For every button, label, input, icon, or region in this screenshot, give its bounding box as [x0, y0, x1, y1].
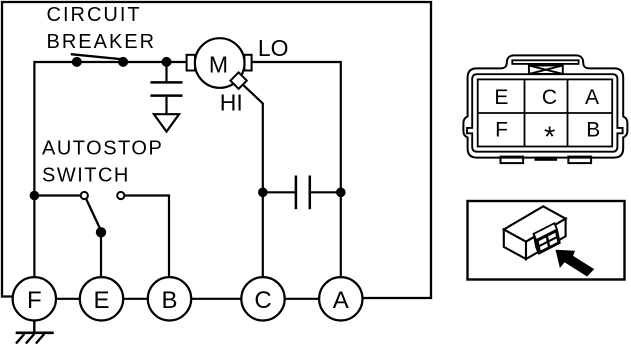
svg-text:A: A	[585, 86, 599, 109]
connector pin grid	[478, 79, 613, 146]
connector housing inner outline	[467, 74, 623, 152]
pin F	[495, 118, 508, 141]
terminal B	[148, 277, 191, 320]
capacitor C1 noise suppressor	[150, 62, 182, 114]
terminal C	[241, 277, 284, 320]
label LO	[258, 35, 289, 61]
svg-text:A: A	[333, 287, 349, 314]
relay module front face	[504, 230, 526, 260]
svg-text:AUTOSTOP: AUTOSTOP	[42, 138, 163, 160]
location box frame	[468, 201, 625, 280]
ground under capacitor C1	[154, 114, 179, 131]
pin E	[494, 86, 508, 109]
module socket cell bottom-right	[549, 237, 559, 246]
junction node switch branch	[30, 191, 40, 201]
terminal A	[319, 277, 362, 320]
connector bottom tab center filled	[535, 157, 558, 161]
wire bus C-A	[285, 298, 319, 300]
circuit breaker contact dot left	[72, 57, 82, 67]
svg-text:B: B	[586, 118, 600, 141]
pin C	[542, 86, 557, 109]
arrow pointer	[556, 250, 595, 277]
module socket left strip	[534, 234, 539, 254]
connector bottom tab right	[568, 157, 591, 164]
svg-text:*: *	[544, 122, 555, 154]
svg-text:F: F	[27, 287, 42, 314]
wire HI from motor down to C	[243, 85, 262, 277]
module socket top strip	[534, 223, 557, 240]
connector bottom tab left	[501, 157, 524, 164]
wire outer loop F to A	[2, 2, 431, 298]
module socket front face	[536, 230, 560, 254]
relay module top face	[504, 206, 566, 241]
terminal E	[80, 277, 123, 320]
label CIRCUIT BREAKER	[47, 4, 157, 53]
circuit breaker CB blade	[71, 54, 124, 59]
svg-text:C: C	[254, 287, 271, 314]
connector lock tab inner bar	[512, 60, 578, 64]
wire F up and top wire to motor	[34, 62, 186, 277]
pin B	[586, 118, 600, 141]
module socket cell top-left	[538, 236, 548, 245]
autostop switch SW1	[34, 192, 169, 277]
svg-text:CIRCUIT: CIRCUIT	[47, 4, 142, 26]
svg-text:E: E	[93, 287, 109, 314]
wire bus B-C	[191, 298, 241, 300]
label HI	[220, 89, 243, 115]
wire bus E-B	[123, 298, 148, 300]
wire LO from motor down to A	[252, 62, 341, 277]
module socket cell bottom-left	[539, 242, 549, 251]
connector housing outer outline with lock tab and side lugs	[463, 55, 627, 157]
connector lock bowtie	[529, 66, 563, 74]
circuit breaker contact dot right	[118, 57, 128, 67]
wire bus F-E	[56, 298, 80, 300]
svg-text:E: E	[494, 86, 508, 109]
junction node C2 left	[258, 188, 268, 198]
pin star	[544, 122, 555, 154]
svg-text:SWITCH: SWITCH	[42, 164, 130, 186]
ground under terminal F	[16, 321, 54, 344]
svg-text:HI: HI	[220, 89, 243, 115]
pin A	[585, 86, 599, 109]
svg-text:B: B	[161, 287, 177, 314]
svg-text:F: F	[495, 118, 508, 141]
svg-text:C: C	[542, 86, 557, 109]
svg-text:LO: LO	[258, 35, 289, 61]
terminal F	[13, 277, 56, 320]
svg-text:BREAKER: BREAKER	[47, 31, 157, 53]
motor M1	[187, 38, 252, 89]
junction node capacitor branch	[162, 57, 172, 67]
capacitor C2 between C and A	[263, 176, 341, 210]
relay module right face	[526, 219, 566, 259]
svg-text:M: M	[209, 51, 228, 77]
label AUTOSTOP SWITCH	[42, 138, 163, 187]
junction node C2 right	[336, 188, 346, 198]
module socket cell top-right	[547, 232, 557, 241]
